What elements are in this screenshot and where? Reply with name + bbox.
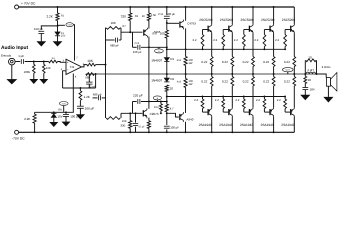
wire NPN base drive bus bbox=[167, 48, 285, 50]
resistor R18 330 from -rail bbox=[129, 113, 131, 120]
zener diode Z2 15V bbox=[53, 111, 55, 113]
resistor 0.22 emitter Q12 bbox=[252, 74, 254, 77]
svg-text:2.2: 2.2 bbox=[215, 98, 219, 102]
svg-text:Entrada: Entrada bbox=[1, 53, 12, 57]
ground of input jack bbox=[11, 65, 13, 80]
svg-text:47 µF: 47 µF bbox=[138, 125, 145, 128]
svg-text:1W: 1W bbox=[188, 62, 192, 65]
wire collector Q13 to -rail bbox=[273, 117, 275, 132]
wire collector Q11 to -rail bbox=[231, 117, 233, 132]
resistor 0.22 emitter Q6 bbox=[231, 34, 233, 57]
capacitor C11 220uF lower VAS bbox=[132, 102, 134, 114]
resistor R19 1K to -rail bbox=[147, 121, 150, 129]
wire base Q10 bbox=[203, 111, 210, 113]
wire base Q14 bbox=[285, 111, 292, 113]
svg-text:1N4007: 1N4007 bbox=[151, 58, 162, 62]
resistor R1 2.2K from +rail bbox=[57, 6, 59, 8]
wire feedback to pin 2 bbox=[63, 71, 66, 88]
capacitor C1 100uF bbox=[38, 30, 44, 32]
svg-text:2.2: 2.2 bbox=[254, 38, 258, 42]
svg-text:2SC5200: 2SC5200 bbox=[199, 18, 213, 22]
svg-text:1K: 1K bbox=[142, 15, 145, 18]
wire base Q11 bbox=[223, 111, 230, 113]
resistor 2.2 base Q8 bbox=[263, 30, 265, 35]
node label oval output bbox=[283, 68, 294, 72]
resistor 2.2 base Q10 bbox=[202, 109, 204, 113]
svg-text:R10: R10 bbox=[152, 32, 157, 35]
transistor Q1 A1015 VAS bbox=[143, 30, 145, 36]
capacitor C2 1uF input coupling bbox=[20, 59, 22, 64]
wire RC to base Q1 bbox=[121, 31, 143, 33]
svg-text:2.2: 2.2 bbox=[234, 38, 238, 42]
svg-text:220 µF: 220 µF bbox=[133, 94, 143, 98]
svg-text:330: 330 bbox=[120, 124, 125, 128]
capacitor C9 100uF to -rail bbox=[166, 113, 168, 125]
wire vertical VAS drive bbox=[105, 28, 107, 118]
wire RC to base Q4 bbox=[121, 112, 142, 114]
svg-text:-70V DC: -70V DC bbox=[12, 137, 25, 141]
svg-text:1W: 1W bbox=[188, 83, 192, 86]
wire base Q5 bbox=[203, 29, 210, 31]
wire emitter Q3 to PNP bus bbox=[185, 97, 187, 113]
resistor R10 10K parallel RC bbox=[106, 27, 120, 30]
ground under Z2 bbox=[53, 117, 55, 122]
wire output bus to speaker bbox=[86, 73, 317, 75]
wire op-amp output pin 6 bbox=[82, 65, 88, 67]
resistor R8 2.2K to -rail bbox=[34, 112, 36, 114]
svg-text:2SC5200: 2SC5200 bbox=[261, 18, 275, 22]
ground under zobel bbox=[304, 90, 306, 95]
capacitor C10 680pF lower RC bbox=[93, 97, 98, 99]
op-amp U1 741 bbox=[66, 59, 82, 74]
resistor 0.22 emitter Q5 bbox=[211, 34, 213, 57]
svg-text:2.2: 2.2 bbox=[213, 38, 217, 42]
svg-text:10K: 10K bbox=[122, 120, 127, 123]
wire emitter Q2 to NPN bus bbox=[185, 28, 187, 49]
node label oval +15V bbox=[58, 24, 65, 26]
wire collector Q2 to +rail bbox=[185, 6, 187, 8]
resistor R17 10K lower RC bbox=[106, 117, 120, 120]
svg-text:10: 10 bbox=[170, 87, 174, 91]
svg-text:2.2K: 2.2K bbox=[47, 14, 53, 18]
svg-text:2.2: 2.2 bbox=[235, 98, 239, 102]
node +15V junction bbox=[57, 25, 59, 27]
svg-text:10: 10 bbox=[308, 55, 312, 59]
svg-text:+: + bbox=[67, 60, 69, 64]
ground under C4 bbox=[79, 108, 81, 114]
svg-text:1.5K: 1.5K bbox=[151, 14, 157, 17]
wire PNP base drive bus bbox=[167, 96, 285, 98]
svg-text:104: 104 bbox=[310, 87, 315, 91]
resistor R15 100 1W lower driver bbox=[185, 74, 187, 79]
svg-text:100: 100 bbox=[160, 32, 165, 36]
transistor Q10 2SA1943 output bbox=[207, 109, 209, 115]
resistor 2.2 base Q7 bbox=[243, 30, 245, 35]
resistor R14 10 bias bbox=[165, 85, 168, 92]
terminal +70V DC input bbox=[15, 5, 19, 9]
svg-text:C11: C11 bbox=[158, 13, 163, 16]
svg-text:100 µF: 100 µF bbox=[170, 125, 179, 129]
resistor R16 4.7 bbox=[166, 97, 168, 105]
wire to base of Q3 bbox=[167, 113, 179, 117]
wire lower RC box bbox=[120, 113, 122, 118]
resistor R9 330 from +rail bbox=[129, 6, 131, 8]
svg-text:1.2K: 1.2K bbox=[84, 95, 91, 99]
wire base Q12 bbox=[244, 111, 251, 113]
capacitor C5 100uF on -15V bbox=[65, 111, 67, 113]
svg-text:0.22: 0.22 bbox=[243, 80, 249, 84]
svg-text:Audio Input: Audio Input bbox=[1, 45, 29, 51]
svg-text:R15: R15 bbox=[177, 80, 182, 83]
wire collector Q4 to R19 bbox=[148, 118, 150, 121]
svg-text:2SA1943: 2SA1943 bbox=[219, 123, 232, 127]
svg-text:15V: 15V bbox=[58, 109, 63, 112]
resistor R12 100 bbox=[166, 23, 168, 30]
svg-text:−: − bbox=[67, 67, 69, 71]
wire emitter Q1 down VAS column bbox=[148, 37, 150, 109]
resistor R6 56K feedback on output bus bbox=[86, 73, 94, 76]
ground under speaker bbox=[327, 86, 329, 97]
node feedback divider bbox=[79, 87, 81, 89]
wire feedback box bottom bbox=[63, 87, 96, 89]
svg-text:100 µF: 100 µF bbox=[70, 114, 80, 118]
wire op-amp pin 4 to -15V bbox=[35, 74, 74, 113]
diode D2 1N4007 bias lower bbox=[166, 74, 168, 78]
svg-text:2.2: 2.2 bbox=[256, 98, 260, 102]
svg-text:22 pF: 22 pF bbox=[89, 85, 96, 89]
oval net label A bbox=[155, 49, 164, 53]
resistor 0.22 emitter Q9 bbox=[293, 34, 295, 57]
wire to base of Q2 bbox=[167, 22, 179, 24]
diode D1 1N4007 bias bbox=[166, 49, 168, 57]
ground under C5 bbox=[65, 117, 67, 122]
resistor R22 10 zobel bbox=[304, 74, 306, 76]
resistor R2 100K to ground bbox=[33, 62, 35, 65]
svg-text:-15V: -15V bbox=[62, 102, 67, 105]
transistor Q2 C4793 driver bbox=[179, 21, 181, 27]
resistor R7 1.2K feedback divider bbox=[79, 88, 81, 91]
svg-text:680 µF: 680 µF bbox=[93, 92, 102, 96]
node label oval -15V bbox=[59, 102, 68, 106]
svg-text:0.22: 0.22 bbox=[222, 60, 228, 64]
wire output R to VAS node bbox=[96, 64, 106, 66]
svg-text:2SC5200: 2SC5200 bbox=[241, 18, 255, 22]
terminal audio input jack bbox=[9, 58, 16, 65]
svg-text:10K: 10K bbox=[111, 21, 116, 25]
svg-text:0.22: 0.22 bbox=[201, 60, 207, 64]
wire collector Q1 to R11 bbox=[148, 20, 150, 28]
wire D1 to output bus bbox=[166, 62, 168, 75]
capacitor C14 47uF bbox=[135, 112, 137, 114]
svg-text:2.2: 2.2 bbox=[275, 38, 279, 42]
svg-text:2SC5200: 2SC5200 bbox=[282, 18, 296, 22]
wire feedback box right bbox=[95, 74, 97, 88]
capacitor C3 22pF lag compensation bbox=[88, 75, 90, 82]
speaker SPK1 8 ohms bbox=[317, 74, 327, 78]
ground under C1 bbox=[40, 34, 42, 42]
ground under Z1 bbox=[57, 36, 59, 42]
svg-text:0.22: 0.22 bbox=[201, 80, 207, 84]
resistor R5 10K op-amp output bbox=[87, 63, 96, 66]
svg-text:0.22: 0.22 bbox=[243, 60, 249, 64]
transistor Q12 2SA1943 output bbox=[248, 109, 250, 115]
node base Q4 bbox=[129, 112, 131, 114]
wire +15V to op-amp pin 7 bbox=[73, 25, 74, 61]
resistor 2.2 base Q9 bbox=[284, 30, 286, 35]
transistor Q4 C2073 VAS lower bbox=[142, 110, 144, 116]
svg-text:22K: 22K bbox=[46, 66, 51, 70]
capacitor C4 100uF feedback bbox=[79, 102, 81, 107]
svg-text:2.2: 2.2 bbox=[193, 38, 197, 42]
svg-text:D1: D1 bbox=[170, 57, 174, 61]
resistor 2.2 base Q14 bbox=[284, 109, 286, 113]
svg-text:R13: R13 bbox=[154, 106, 159, 109]
node lower driver base bbox=[166, 112, 168, 114]
wire collector Q14 to -rail bbox=[293, 117, 295, 132]
node base Q1 bbox=[129, 31, 131, 33]
resistor 0.22 emitter Q14 bbox=[293, 74, 295, 77]
svg-text:10: 10 bbox=[308, 78, 312, 82]
wire input to C2 bbox=[15, 61, 20, 63]
wire to op-amp pin 3 bbox=[58, 61, 66, 64]
resistor 0.22 emitter Q10 bbox=[211, 74, 213, 77]
svg-text:15V: 15V bbox=[61, 35, 66, 38]
zener diode Z1 15V bbox=[57, 26, 59, 32]
svg-text:2SA1943: 2SA1943 bbox=[281, 123, 294, 127]
svg-text:1 µF: 1 µF bbox=[18, 54, 24, 58]
resistor 0.22 emitter Q13 bbox=[273, 74, 275, 77]
svg-text:10K: 10K bbox=[87, 59, 94, 63]
svg-text:8 ohms: 8 ohms bbox=[322, 66, 331, 69]
wire base Q9 bbox=[285, 29, 292, 31]
svg-text:0.22: 0.22 bbox=[284, 80, 290, 84]
svg-text:220 µF: 220 µF bbox=[133, 50, 142, 54]
capacitor C6 680pF parallel RC bbox=[106, 39, 115, 41]
svg-text:4 µH: 4 µH bbox=[307, 68, 313, 72]
wire to filter cap C1 bbox=[41, 26, 57, 30]
svg-text:100 µF: 100 µF bbox=[85, 106, 95, 110]
svg-text:0.22: 0.22 bbox=[284, 60, 290, 64]
svg-text:0.22: 0.22 bbox=[263, 60, 269, 64]
svg-text:1N4007: 1N4007 bbox=[151, 79, 162, 83]
svg-text:C13: C13 bbox=[135, 42, 140, 45]
resistor 2.2 base Q13 bbox=[263, 109, 265, 113]
svg-text:C4793: C4793 bbox=[187, 22, 196, 26]
capacitor C7 220uF VAS bbox=[132, 32, 134, 47]
transistor Q3 A940 driver bbox=[179, 114, 181, 120]
node output network bbox=[304, 73, 306, 75]
wire base Q7 bbox=[244, 29, 251, 31]
wire collector Q3 to -rail bbox=[185, 122, 187, 133]
svg-text:680 pF: 680 pF bbox=[110, 44, 119, 48]
terminal -70V DC input bbox=[15, 130, 19, 134]
svg-text:2SC5200: 2SC5200 bbox=[220, 18, 234, 22]
svg-text:2.2: 2.2 bbox=[277, 98, 281, 102]
wire base Q13 bbox=[264, 111, 271, 113]
svg-text:0.22: 0.22 bbox=[222, 80, 228, 84]
svg-text:741: 741 bbox=[70, 65, 75, 69]
svg-text:2SA1943: 2SA1943 bbox=[199, 123, 212, 127]
resistor R3 22K to ground bbox=[43, 62, 45, 65]
transistor Q13 2SA1943 output bbox=[269, 109, 271, 115]
svg-text:2SA1943: 2SA1943 bbox=[261, 123, 274, 127]
wire oval lead bbox=[156, 100, 158, 102]
resistor 0.22 emitter Q8 bbox=[273, 34, 275, 57]
svg-text:100K: 100K bbox=[24, 70, 31, 74]
node input bias junction bbox=[33, 61, 35, 63]
resistor R4 10K series input bbox=[49, 60, 58, 63]
svg-text:A940: A940 bbox=[186, 117, 193, 121]
capacitor C8 100uF from +rail bbox=[166, 6, 168, 8]
wire collector Q10 to -rail bbox=[211, 117, 213, 132]
resistor 2.2 base Q11 bbox=[222, 109, 224, 113]
svg-text:+ 70V DC: + 70V DC bbox=[21, 2, 36, 6]
transistor Q14 2SA1943 output bbox=[290, 109, 292, 115]
svg-text:100 µF: 100 µF bbox=[34, 27, 43, 31]
resistor 2.2 base Q6 bbox=[222, 30, 224, 35]
svg-text:D2: D2 bbox=[170, 77, 174, 81]
transistor Q11 2SA1943 output bbox=[228, 109, 230, 115]
resistor 0.22 emitter Q7 bbox=[252, 34, 254, 57]
svg-text:0.22: 0.22 bbox=[263, 80, 269, 84]
svg-text:2.2K: 2.2K bbox=[24, 117, 30, 121]
wire collector Q12 to -rail bbox=[252, 117, 254, 132]
wire +70V top supply rail bbox=[19, 6, 295, 8]
resistor 2.2 base Q5 bbox=[202, 30, 204, 35]
resistor R13 4.7 bbox=[160, 102, 162, 104]
node driver base bbox=[166, 20, 168, 23]
svg-text:R14: R14 bbox=[177, 59, 182, 62]
svg-text:2.2: 2.2 bbox=[194, 98, 198, 102]
node VAS drive vertical bbox=[105, 64, 107, 66]
svg-text:2SA1943: 2SA1943 bbox=[240, 123, 253, 127]
svg-text:4.7: 4.7 bbox=[170, 106, 174, 110]
svg-text:330: 330 bbox=[121, 14, 126, 18]
wire RC box top bbox=[105, 27, 108, 29]
inductor L1 4uH on output bbox=[306, 72, 316, 74]
resistor R21 10 parallel inductor bbox=[304, 60, 306, 74]
resistor R11 1K from +rail bbox=[148, 6, 150, 8]
resistor 2.2 base Q12 bbox=[243, 109, 245, 113]
svg-text:+15V: +15V bbox=[67, 24, 72, 27]
resistor 0.22 emitter Q11 bbox=[231, 74, 233, 77]
ground under R2 bbox=[30, 79, 38, 83]
wire base Q6 bbox=[223, 29, 230, 31]
svg-text:C2073: C2073 bbox=[150, 112, 159, 116]
oval net label B bbox=[153, 96, 161, 100]
capacitor C12 104 zobel bbox=[304, 84, 306, 88]
ground under R3 bbox=[40, 79, 48, 83]
svg-text:100 µF: 100 µF bbox=[167, 12, 176, 16]
wire input node bbox=[25, 61, 49, 63]
resistor R13 100 1W driver emitter bbox=[185, 49, 187, 56]
wire base Q8 bbox=[264, 29, 271, 31]
svg-text:15V: 15V bbox=[57, 114, 62, 118]
wire -70V bottom supply rail bbox=[19, 131, 295, 133]
